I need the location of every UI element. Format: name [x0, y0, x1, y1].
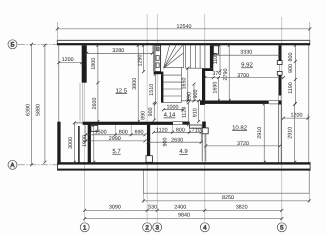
stair left wall [161, 74, 163, 103]
svg-text:3820: 3820 [236, 204, 248, 210]
svg-text:2910: 2910 [288, 127, 294, 139]
slash ticks [30, 27, 311, 220]
axis line B horizontal [18, 43, 58, 45]
axis grid line 1 [84, 48, 86, 222]
svg-text:1120: 1120 [156, 127, 168, 133]
right terrace edge line [308, 45, 310, 162]
axis circle 5 [277, 223, 286, 232]
svg-text:3000: 3000 [68, 137, 74, 149]
svg-text:5880: 5880 [36, 104, 42, 116]
bottom exterior wall bottom band [57, 169, 310, 171]
svg-text:3: 3 [155, 225, 159, 232]
extension lines small group [80, 45, 201, 143]
dim 2910 right line [293, 105, 295, 163]
dim 1200 top line [59, 62, 82, 64]
top wall inner thick band [57, 43, 309, 45]
svg-text:Б: Б [10, 42, 14, 49]
svg-text:1000: 1000 [167, 105, 179, 111]
dim 1900 line [93, 125, 95, 162]
svg-text:800: 800 [119, 129, 128, 135]
svg-text:1290: 1290 [137, 55, 143, 67]
stair treads upper flight vertical [186, 45, 205, 68]
svg-text:1100: 1100 [213, 53, 219, 65]
door jamb 4.9 top horizontal [190, 125, 205, 128]
svg-text:530: 530 [148, 204, 157, 210]
svg-text:370: 370 [212, 71, 221, 77]
svg-text:4.14: 4.14 [164, 112, 176, 119]
axis grid line 2 [146, 14, 148, 222]
dim 1200 right line [282, 117, 308, 119]
middle wall door threshold [173, 121, 182, 123]
vent square 2 [156, 56, 159, 61]
partition 4.9|10.82 thin lines [201, 134, 203, 162]
left terrace edge line [58, 45, 60, 122]
svg-text:9840: 9840 [178, 213, 190, 219]
svg-text:710: 710 [192, 127, 201, 133]
axis grid line 4 [204, 14, 206, 222]
dim 12540 line [57, 28, 309, 30]
dim 8250 left extension [142, 193, 144, 202]
dimension lines [30, 22, 311, 220]
right wall segment 2 [279, 75, 282, 95]
dim 3800 line [137, 45, 139, 121]
dim 12540 right extension [309, 22, 311, 40]
dim 9840 line [85, 218, 282, 220]
dim 2790 line [228, 45, 230, 100]
stair winder fan [164, 45, 184, 68]
svg-text:800: 800 [176, 127, 185, 133]
svg-text:2990: 2990 [109, 136, 121, 142]
svg-text:890: 890 [141, 111, 147, 120]
svg-text:1690: 1690 [212, 82, 218, 94]
door jamb 10.82 left [202, 128, 208, 134]
svg-text:12.5: 12.5 [115, 87, 127, 94]
svg-text:1500: 1500 [95, 129, 107, 135]
bottom wall right cap [309, 162, 311, 170]
dim 3720 line [206, 145, 280, 147]
top wall end caps [56, 40, 58, 45]
svg-text:2: 2 [145, 225, 149, 232]
dim 12540 left extension [56, 22, 58, 40]
svg-text:12540: 12540 [177, 24, 192, 30]
wall stub axis1 top [82, 45, 87, 82]
bottom left exterior wall [57, 122, 60, 164]
svg-text:3720: 3720 [237, 141, 249, 147]
dim 1120 vertical line [187, 103, 189, 125]
dim 1510 line [154, 74, 156, 104]
interior middle wall right segment [182, 122, 189, 125]
right wall segment 1 [279, 45, 282, 60]
partition right of 9.92 thin [278, 65, 280, 72]
axis circle B [8, 40, 17, 49]
dim 2910 left line [263, 104, 265, 162]
stair bottom corner wall [200, 100, 205, 105]
svg-text:1: 1 [83, 225, 87, 232]
room 5.7 left wall [88, 124, 91, 162]
dim 2630 line [148, 141, 201, 143]
svg-text:900: 900 [288, 64, 294, 73]
wall between 5.7 and 4.9 [147, 125, 150, 156]
svg-text:1800: 1800 [91, 58, 97, 70]
right wall segment 3 [278, 100, 281, 104]
axis circle 2 [143, 223, 152, 232]
door jamb right upper [277, 61, 282, 65]
wall between 4.9 and 10.82 [202, 122, 206, 128]
svg-text:5.7: 5.7 [112, 148, 121, 155]
stair upper right wall [210, 45, 213, 68]
dim 3280 line [87, 52, 153, 54]
bottom exterior wall top band [57, 162, 310, 164]
dim 1500+800+690 line [86, 134, 145, 136]
dim 370+3700 line [205, 77, 284, 79]
dim 2990 line [86, 140, 145, 142]
room 9.92 bottom wall [205, 101, 269, 104]
door jamb top of stairs [213, 46, 218, 54]
svg-text:6390: 6390 [26, 104, 32, 116]
svg-text:1120: 1120 [182, 107, 188, 119]
right corridor partition thin lines [278, 105, 280, 163]
svg-text:4: 4 [203, 225, 207, 232]
interior middle wall thin start [75, 122, 83, 124]
axis circle A [8, 160, 17, 169]
svg-text:3280: 3280 [112, 48, 124, 54]
porch outline bottom [143, 169, 309, 194]
svg-text:800: 800 [288, 53, 294, 62]
dim 8250 line [143, 200, 309, 202]
svg-text:1200: 1200 [291, 113, 303, 119]
svg-text:10.82: 10.82 [232, 124, 248, 131]
dim 900 vertical line landing [153, 103, 155, 120]
svg-text:1650: 1650 [182, 78, 188, 90]
dim 1000 line [163, 109, 183, 111]
top wall outer face [57, 39, 309, 41]
door jamb right lower [277, 71, 282, 75]
dim 290 vertical line stair [187, 95, 189, 101]
dim 8250 right extension [308, 193, 310, 202]
dim 3330 line [213, 54, 280, 56]
svg-text:3800: 3800 [132, 78, 138, 90]
dim 900 vertical line stair [193, 84, 195, 101]
dim 6390 line [31, 44, 33, 165]
vent square 1 [156, 47, 159, 51]
dim 1650 line [187, 68, 189, 101]
svg-text:8250: 8250 [222, 195, 234, 201]
dim 1290 line [143, 45, 145, 71]
axis grid line 3 [156, 14, 158, 222]
vent shaft left line [153, 45, 155, 71]
svg-text:290: 290 [187, 92, 193, 101]
svg-text:1900: 1900 [82, 135, 88, 147]
svg-text:1190: 1190 [288, 82, 294, 94]
axis grid line 5 [281, 17, 283, 222]
dim row 3090 530 2400 3820 line [85, 209, 282, 211]
dim 3000 line [73, 123, 75, 162]
svg-text:3700: 3700 [237, 73, 249, 79]
axis line A horizontal [18, 164, 59, 166]
svg-text:900: 900 [193, 90, 199, 99]
svg-text:9.92: 9.92 [241, 62, 253, 69]
dim 1690 line [217, 78, 219, 101]
dim 1800+2600 line [97, 45, 99, 121]
svg-text:900: 900 [163, 138, 169, 147]
dim 5880 line [44, 45, 46, 162]
svg-text:1510: 1510 [149, 84, 155, 96]
vent square 3 [156, 63, 159, 68]
svg-text:2790: 2790 [223, 69, 229, 81]
svg-text:910: 910 [193, 108, 199, 117]
svg-text:2910: 2910 [257, 127, 263, 139]
threshold to 10.82 door [269, 100, 280, 102]
wall under vent shaft [154, 72, 164, 75]
door jamb 5.7 bottom [146, 156, 152, 163]
axis circle 3 [153, 223, 162, 232]
dim 1120+800+710 line [154, 131, 202, 133]
axis circles [8, 40, 286, 232]
svg-text:3330: 3330 [240, 50, 252, 56]
svg-text:690: 690 [135, 129, 144, 135]
svg-text:3090: 3090 [109, 204, 121, 210]
bottom wall left cap [57, 162, 59, 170]
dim 1200 right extension [307, 115, 309, 120]
svg-text:4.9: 4.9 [179, 148, 188, 155]
dim 1100 line [219, 45, 221, 71]
svg-text:1200: 1200 [62, 57, 74, 63]
dim 910 vertical line [198, 101, 200, 122]
dim 800+900+1190 right line [294, 45, 296, 103]
interior middle wall left segment [83, 122, 173, 125]
stair lower right wall [202, 71, 205, 101]
corridor thin wall [78, 126, 80, 163]
axis circle 1 [80, 223, 89, 232]
stair treads lower flight horizontal [163, 67, 200, 102]
svg-text:А: А [10, 162, 15, 169]
svg-text:2400: 2400 [174, 204, 186, 210]
vent shaft block [155, 45, 161, 71]
axis circle 4 [200, 223, 209, 232]
svg-text:900: 900 [148, 107, 154, 116]
door jamb 5.7 top [91, 125, 98, 131]
svg-text:2630: 2630 [171, 137, 183, 143]
axis lines crossing bottom wall [84, 165, 86, 169]
stair step wall horizontal [202, 68, 213, 71]
svg-text:5: 5 [280, 225, 284, 232]
svg-text:2600: 2600 [92, 98, 98, 110]
